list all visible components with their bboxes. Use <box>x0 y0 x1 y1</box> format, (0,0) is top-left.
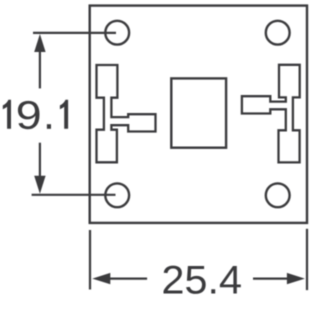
mounting hole bottom-left <box>105 183 129 207</box>
dimension text 25.4 <box>164 266 241 294</box>
dimension text 19.1 digit 1 <box>3 100 11 129</box>
left pad structure outline <box>97 65 156 162</box>
vertical dimension line upper segment <box>39 50 41 88</box>
vertical dimension arrowhead down <box>34 176 45 194</box>
dimension leader line bottom (through bottom-left hole center) <box>32 194 116 196</box>
horizontal dimension arrowhead right <box>287 273 305 284</box>
mounting hole top-left <box>105 21 129 45</box>
extension line bottom-left (from board left edge) <box>89 230 91 290</box>
horizontal dimension line right segment <box>253 278 293 280</box>
mounting hole top-right <box>266 21 290 45</box>
vertical dimension arrowhead up <box>34 34 45 52</box>
dimension text 19.1 decimal point <box>47 124 51 129</box>
horizontal dimension line left segment <box>108 278 147 280</box>
dimension leader line top (through top-left hole center) <box>33 32 116 34</box>
horizontal dimension arrowhead left <box>92 273 110 284</box>
vertical dimension line lower segment <box>39 143 41 178</box>
extension line bottom-right (from board right edge) <box>306 229 308 290</box>
board outline <box>90 6 307 223</box>
dimension text 19.1 digit 1 (second) <box>60 100 68 129</box>
dimension text 19.1 digit 9 <box>18 101 40 129</box>
right pad structure outline <box>242 65 300 163</box>
mounting hole bottom-right <box>266 183 290 207</box>
component body center rectangle <box>171 78 226 147</box>
